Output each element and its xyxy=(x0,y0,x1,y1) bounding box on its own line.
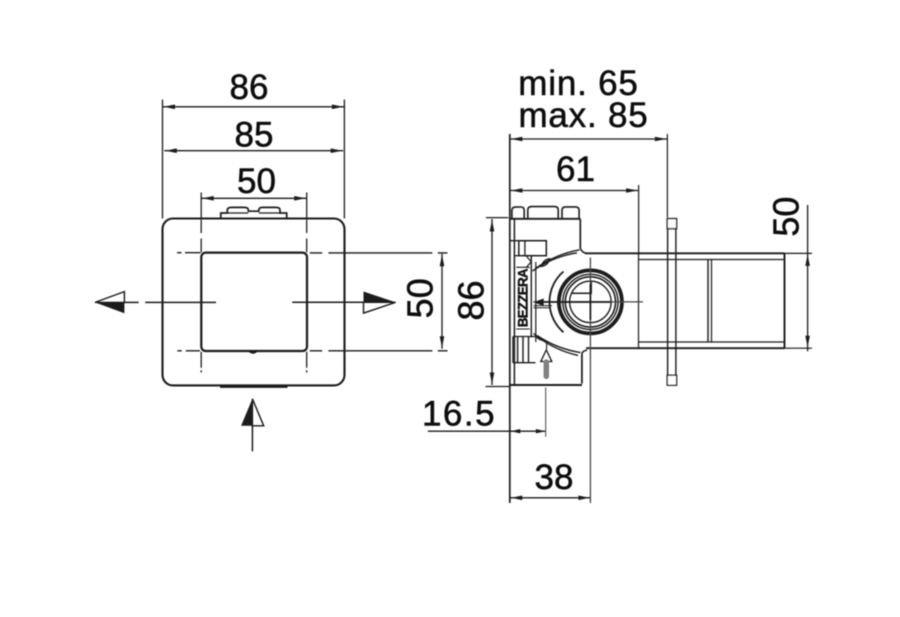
svg-text:50: 50 xyxy=(766,197,807,237)
svg-text:50: 50 xyxy=(237,162,276,201)
svg-text:86: 86 xyxy=(230,68,269,107)
svg-text:61: 61 xyxy=(556,150,595,189)
svg-text:50: 50 xyxy=(400,278,441,318)
svg-text:38: 38 xyxy=(535,458,574,497)
svg-text:86: 86 xyxy=(451,280,492,320)
svg-text:BEZZERA: BEZZERA xyxy=(515,268,530,327)
svg-text:16.5: 16.5 xyxy=(422,394,496,433)
svg-text:85: 85 xyxy=(235,115,274,154)
svg-text:max. 85: max. 85 xyxy=(518,96,648,135)
